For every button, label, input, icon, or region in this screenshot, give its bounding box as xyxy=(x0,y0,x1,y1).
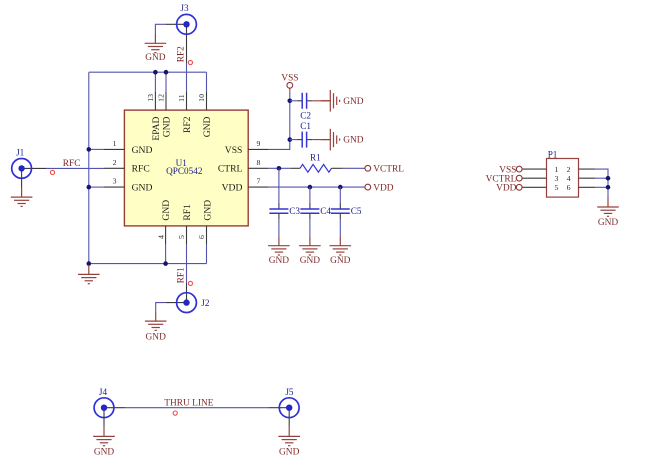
svg-text:12: 12 xyxy=(157,94,166,102)
svg-text:C5: C5 xyxy=(351,206,362,216)
svg-text:GND: GND xyxy=(94,448,115,458)
svg-text:GND: GND xyxy=(269,256,290,266)
ground at J3 xyxy=(145,34,167,63)
wire RFC J1 to pin2 xyxy=(46,167,104,169)
svg-text:6: 6 xyxy=(567,183,571,192)
wire P1 pin2 to ground rail xyxy=(595,169,608,197)
wire VDD pin7 to port xyxy=(269,186,365,188)
wire P1 pin6 to ground rail xyxy=(595,186,608,188)
J2 pin stub up xyxy=(186,284,188,303)
U1 pin 2 stub xyxy=(104,167,125,169)
junction P1 pin6 xyxy=(606,185,611,190)
svg-text:VSS: VSS xyxy=(225,145,243,156)
svg-text:11: 11 xyxy=(177,94,186,102)
connector P1 body xyxy=(547,149,579,197)
wire J2 to ground xyxy=(156,303,166,312)
junction left bus pin3 xyxy=(87,185,92,190)
node THRU LINE marker xyxy=(173,411,177,415)
svg-text:GND: GND xyxy=(145,53,166,63)
port VSS at P1 xyxy=(499,165,522,175)
svg-text:THRU LINE: THRU LINE xyxy=(164,399,213,409)
svg-text:GND: GND xyxy=(343,136,364,146)
svg-text:QPC0542: QPC0542 xyxy=(166,166,203,176)
svg-text:RFC: RFC xyxy=(132,164,150,175)
svg-text:4: 4 xyxy=(567,174,571,183)
U1 pin 5 stub xyxy=(186,226,188,245)
svg-text:VDD: VDD xyxy=(222,183,243,194)
capacitor C1 xyxy=(297,121,312,148)
wire pin12 to top bus xyxy=(165,72,167,91)
U1 pin 3 stub xyxy=(104,186,125,188)
wire pin3 to bus xyxy=(89,186,104,188)
svg-text:RF2: RF2 xyxy=(182,116,193,133)
wire THRU LINE J4 to J5 xyxy=(125,407,268,409)
J2 ground stub left xyxy=(166,302,187,304)
ground at C5 xyxy=(330,236,352,266)
svg-text:C3: C3 xyxy=(289,206,300,216)
svg-text:4: 4 xyxy=(156,235,165,239)
node RF1 marker xyxy=(188,281,192,285)
U1 pin 1 stub xyxy=(104,148,125,150)
svg-text:3: 3 xyxy=(113,177,117,186)
wire VDD down to C4 xyxy=(309,187,311,203)
svg-text:GND: GND xyxy=(343,97,364,107)
U1 pin 8 stub xyxy=(248,167,269,169)
svg-text:J2: J2 xyxy=(201,298,210,308)
wire C5 to ground xyxy=(339,219,341,236)
port VSS stub xyxy=(289,88,291,91)
U1 pin 7 stub xyxy=(248,186,269,188)
ground at C3 xyxy=(268,236,290,266)
junction CTRL C3 xyxy=(277,166,282,171)
U1 pin 9 stub xyxy=(248,148,269,150)
U1 pin 4 stub xyxy=(165,226,167,245)
P1 pin 5 stub xyxy=(522,186,546,188)
port VDD xyxy=(365,183,394,193)
connector J3 xyxy=(177,3,197,34)
junction VDD C5 xyxy=(338,185,343,190)
connector J4 xyxy=(94,387,114,418)
J1 pin stub right xyxy=(22,167,46,169)
P1 pin 1 stub xyxy=(522,168,546,170)
junction left bus pin1 xyxy=(87,147,92,152)
J5 ground stub xyxy=(288,408,290,427)
junction VSS C2 xyxy=(288,99,293,104)
U1 pin 13 stub xyxy=(154,91,156,110)
svg-text:2: 2 xyxy=(567,165,571,174)
junction P1 pin4 xyxy=(606,176,611,181)
node RF2 marker xyxy=(188,60,192,64)
ground at C2 xyxy=(312,90,364,112)
junction bottom bus pin4 xyxy=(163,261,168,266)
capacitor C5 xyxy=(331,203,362,220)
svg-text:RF2: RF2 xyxy=(177,46,187,62)
port VCTRL xyxy=(365,165,404,175)
svg-text:RFC: RFC xyxy=(63,159,81,169)
connector J5 xyxy=(279,387,299,418)
wire VDD down to C5 xyxy=(339,187,341,203)
J5 pin stub left xyxy=(268,407,289,409)
svg-text:1: 1 xyxy=(113,139,117,148)
wire pin13 to top bus xyxy=(154,72,156,91)
wire C4 to ground xyxy=(309,219,311,236)
junction VDD C4 xyxy=(308,185,313,190)
svg-text:J5: J5 xyxy=(285,387,294,397)
port VCTRL at P1 xyxy=(486,174,522,184)
svg-text:GND: GND xyxy=(202,116,213,137)
svg-text:GND: GND xyxy=(203,200,214,221)
svg-text:C4: C4 xyxy=(320,206,331,216)
svg-text:7: 7 xyxy=(256,177,260,186)
svg-text:GND: GND xyxy=(279,448,300,458)
ground at C1 xyxy=(312,129,364,151)
svg-text:GND: GND xyxy=(132,183,153,194)
svg-text:2: 2 xyxy=(113,158,117,167)
ground at P1 xyxy=(597,198,619,228)
J1 ground stub xyxy=(21,168,23,187)
wire CTRL pin8 to R1 xyxy=(269,167,291,169)
wire pin1 to bus xyxy=(89,148,104,150)
svg-text:5: 5 xyxy=(177,235,186,239)
wire VSS pin9 to port xyxy=(269,92,290,150)
svg-text:EPAD: EPAD xyxy=(151,116,162,140)
svg-text:R1: R1 xyxy=(310,153,321,163)
wire RF1 pin5 to J2 xyxy=(186,245,188,284)
wire R1 to VCTRL port xyxy=(343,167,365,169)
junction VSS C1 xyxy=(288,137,293,142)
svg-text:9: 9 xyxy=(256,139,260,148)
junction bottom bus ground xyxy=(87,261,92,266)
capacitor C3 xyxy=(269,203,300,220)
wire pin6 to bottom bus xyxy=(206,245,208,264)
resistor R1 xyxy=(290,153,343,173)
P1 pin 3 stub xyxy=(522,177,546,179)
ground at J2 xyxy=(145,312,167,343)
port VSS xyxy=(281,74,298,89)
svg-text:C2: C2 xyxy=(300,110,311,120)
svg-text:J4: J4 xyxy=(99,387,108,397)
wire pin4 to bottom bus xyxy=(165,245,167,264)
capacitor C4 xyxy=(300,203,331,220)
P1 pin 2 stub xyxy=(579,168,596,170)
P1 pin 6 stub xyxy=(579,186,596,188)
svg-text:GND: GND xyxy=(146,332,167,342)
U1 pin 10 stub xyxy=(206,91,208,110)
wire GND bus left vertical xyxy=(88,72,90,263)
J4 pin stub right xyxy=(104,407,125,409)
svg-text:VCTRL: VCTRL xyxy=(373,165,404,175)
svg-text:VDD: VDD xyxy=(496,184,517,194)
ground at J4 xyxy=(93,427,115,458)
svg-text:VSS: VSS xyxy=(281,74,298,84)
svg-text:8: 8 xyxy=(256,158,260,167)
svg-text:1: 1 xyxy=(555,165,559,174)
U1 pin 12 stub xyxy=(165,91,167,110)
svg-text:GND: GND xyxy=(162,116,173,137)
op-amp U1 body QPC0542 xyxy=(124,110,248,226)
svg-text:GND: GND xyxy=(132,145,153,156)
node RFC marker xyxy=(50,170,54,174)
wire CTRL down to C3 xyxy=(278,168,280,202)
wire VSS to C1 xyxy=(290,139,297,141)
wire pin10 to top bus xyxy=(206,72,208,91)
svg-text:GND: GND xyxy=(330,256,351,266)
wire VSS to C2 xyxy=(290,100,297,102)
connector J2 xyxy=(177,293,210,313)
svg-text:C1: C1 xyxy=(300,121,311,131)
svg-text:6: 6 xyxy=(197,235,206,239)
svg-text:10: 10 xyxy=(197,94,206,102)
svg-text:3: 3 xyxy=(555,174,559,183)
svg-text:CTRL: CTRL xyxy=(218,164,243,175)
junction top bus pin12 xyxy=(164,70,169,75)
wire C3 to ground xyxy=(278,219,280,236)
svg-text:GND: GND xyxy=(598,218,619,228)
svg-text:5: 5 xyxy=(555,183,559,192)
wire RF2 J3 to pin11 xyxy=(186,63,188,92)
junction top bus pin13 xyxy=(153,70,158,75)
ground at bottom bus xyxy=(78,265,100,284)
wire GND bus top horizontal xyxy=(89,71,207,73)
connector J1 xyxy=(12,147,32,178)
capacitor C2 xyxy=(297,93,312,121)
J4 ground stub xyxy=(103,408,105,427)
svg-text:P1: P1 xyxy=(548,149,558,159)
U1 pin 6 stub xyxy=(206,226,208,245)
svg-text:RF1: RF1 xyxy=(182,204,193,221)
ground at J1 xyxy=(11,188,33,207)
ground at J5 xyxy=(278,427,300,458)
svg-text:J1: J1 xyxy=(16,147,25,157)
ground at C4 xyxy=(299,236,321,266)
wire GND bus bottom horizontal xyxy=(89,263,207,265)
svg-text:RF1: RF1 xyxy=(177,267,187,283)
P1 pin 4 stub xyxy=(579,177,596,179)
svg-text:13: 13 xyxy=(146,94,155,102)
J3 pin stub down xyxy=(186,24,188,62)
svg-text:GND: GND xyxy=(161,200,172,221)
port VDD at P1 xyxy=(496,184,522,194)
svg-text:VDD: VDD xyxy=(373,183,394,193)
svg-text:GND: GND xyxy=(300,256,321,266)
U1 pin 11 stub xyxy=(186,91,188,110)
wire J3 to ground xyxy=(155,24,166,34)
wire P1 pin4 to ground rail xyxy=(595,177,608,179)
J3 ground stub left xyxy=(166,23,187,25)
svg-text:J3: J3 xyxy=(180,3,189,13)
